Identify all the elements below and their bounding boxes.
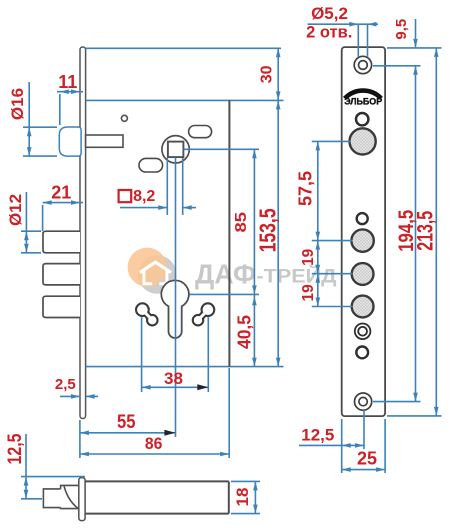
hatched hole 1	[350, 128, 376, 154]
svg-text:86: 86	[145, 434, 163, 453]
dimension 11	[57, 72, 83, 125]
small hole 3	[356, 347, 368, 359]
body bottom edge	[86, 366, 284, 368]
svg-text:213,5: 213,5	[413, 211, 438, 251]
deadbolt pin 1	[43, 231, 80, 253]
dimension 213,5	[413, 48, 439, 416]
dimension 9,5	[393, 19, 418, 48]
svg-text:9,5: 9,5	[393, 19, 410, 40]
svg-text:12,5: 12,5	[301, 426, 334, 445]
dimension 19 upper	[300, 241, 353, 274]
dimension 38	[142, 317, 209, 392]
dimension 55	[80, 412, 175, 436]
keyhole centre line	[175, 157, 177, 437]
faceplate bottom view	[79, 478, 85, 521]
svg-text:2 отв.: 2 отв.	[306, 24, 352, 42]
body bottom view	[85, 481, 229, 513]
small hole 1	[356, 113, 368, 125]
handle screw slot right	[192, 302, 216, 326]
svg-text:12,5: 12,5	[5, 433, 26, 464]
latch bolt side view	[59, 127, 81, 156]
keyhole	[161, 280, 189, 338]
svg-text:Ø16: Ø16	[8, 88, 27, 120]
small hole 2	[357, 213, 368, 224]
lock faceplate side view	[80, 47, 86, 419]
svg-text:Ø5,2: Ø5,2	[311, 4, 348, 23]
deadbolt pin 2	[43, 264, 80, 285]
follower circle	[162, 136, 189, 163]
svg-text:38: 38	[164, 369, 183, 388]
dimension 12,5 faceplate	[299, 410, 364, 473]
top screw hole	[354, 56, 371, 73]
svg-text:11: 11	[58, 72, 77, 92]
svg-text:25: 25	[357, 449, 377, 469]
ELBOR brand logo	[344, 90, 382, 106]
dimension D16	[8, 82, 57, 156]
svg-text:2,5: 2,5	[55, 376, 76, 393]
faceplate front view	[342, 47, 385, 416]
dimension 30	[259, 48, 281, 100]
svg-text:-ТРЕЙД: -ТРЕЙД	[257, 265, 338, 287]
handle screw slot left	[135, 302, 159, 326]
svg-text:85: 85	[233, 212, 250, 233]
svg-text:ДАФ: ДАФ	[195, 258, 256, 289]
dimension 40,5	[235, 294, 257, 366]
body top edge	[86, 99, 284, 101]
svg-text:30: 30	[259, 65, 276, 83]
small pin circle	[121, 115, 127, 121]
dimension 2,5	[55, 376, 98, 399]
dimension square 8,2	[119, 158, 196, 215]
svg-text:21: 21	[51, 182, 71, 202]
body right edge	[228, 100, 230, 366]
deadbolt pin 3	[43, 296, 80, 317]
svg-text:57,5: 57,5	[296, 171, 316, 206]
dimension 18	[231, 481, 260, 513]
dimension 12,5 bottom	[5, 433, 85, 499]
faceplate extension lines	[373, 48, 442, 416]
latch tail bar	[86, 135, 123, 147]
bottom screw hole	[355, 393, 372, 410]
dimension 21	[43, 182, 83, 231]
oval slot lower	[139, 158, 163, 172]
hatched hole 2	[351, 229, 373, 251]
svg-text:19: 19	[300, 248, 317, 266]
svg-text:Ø12: Ø12	[6, 194, 25, 226]
dimension 85	[184, 149, 260, 294]
dimension 153,5	[255, 100, 281, 366]
oval slot upper	[189, 126, 212, 138]
square spindle hole	[168, 142, 184, 158]
hatched hole 3	[352, 263, 374, 285]
dimension 25	[342, 419, 385, 473]
label D5,2 2 holes	[306, 4, 378, 57]
dimension 194,5	[395, 66, 418, 402]
ring hole	[355, 324, 371, 340]
svg-text:40,5: 40,5	[235, 315, 255, 349]
latch bottom view	[43, 485, 78, 508]
watermark house logo	[128, 248, 177, 294]
svg-text:ЭЛЬБОР: ЭЛЬБОР	[344, 96, 382, 106]
svg-text:19: 19	[300, 284, 317, 302]
svg-text:18: 18	[233, 488, 252, 507]
dimension D12	[6, 192, 41, 253]
svg-text:153,5: 153,5	[255, 208, 281, 252]
dimension 57,5	[296, 141, 353, 240]
svg-text:8,2: 8,2	[133, 188, 155, 205]
plate top extension line	[86, 47, 281, 49]
svg-text:55: 55	[117, 412, 136, 433]
dimension 86	[80, 368, 229, 458]
watermark text	[195, 258, 337, 289]
hatched hole 4	[352, 296, 374, 318]
dimension 19 lower	[300, 274, 353, 307]
